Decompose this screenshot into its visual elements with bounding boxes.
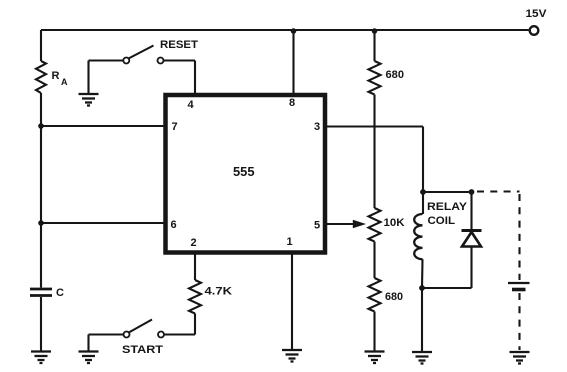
wire pin 6 <box>41 222 164 224</box>
svg-text:555: 555 <box>233 164 255 179</box>
wire 10K to 680 (lower) <box>373 242 375 279</box>
node junction relay top left <box>420 189 426 195</box>
svg-text:8: 8 <box>289 97 295 109</box>
wire C to ground <box>40 297 42 351</box>
wire relay top <box>423 191 472 193</box>
svg-text:4: 4 <box>187 99 194 111</box>
wire top supply rail <box>41 29 529 31</box>
wire pin 2 <box>194 253 196 280</box>
svg-text:COIL: COIL <box>428 215 456 227</box>
ground C <box>31 352 51 364</box>
wire pin 7 <box>41 125 164 127</box>
potentiometer 10K <box>369 208 405 242</box>
node junction pin6 / left rail <box>38 220 44 226</box>
svg-text:R: R <box>52 70 60 82</box>
node junction relay top right <box>469 189 475 195</box>
relay coil L1 <box>414 192 468 288</box>
svg-text:7: 7 <box>171 121 177 133</box>
wire pin 3 <box>327 127 423 193</box>
node junction pin7 / left rail <box>38 123 44 129</box>
resistor 680 (upper) <box>369 30 405 95</box>
terminal 15V <box>526 8 548 35</box>
resistor 4.7K <box>189 280 232 314</box>
switch RESET <box>89 39 199 93</box>
wire pin 8 <box>292 30 294 94</box>
ground resistor chain <box>365 352 385 364</box>
svg-text:10K: 10K <box>384 217 405 229</box>
svg-text:1: 1 <box>286 236 292 248</box>
node junction relay bottom <box>419 285 425 291</box>
wire 680 to ground <box>373 312 375 352</box>
op-amp/IC 555 <box>166 95 326 253</box>
wire pin 5 with wiper arrow <box>327 220 366 229</box>
svg-text:3: 3 <box>314 121 320 133</box>
svg-text:680: 680 <box>386 69 405 81</box>
svg-text:RESET: RESET <box>160 39 198 51</box>
wire pin 1 <box>291 253 293 350</box>
wire left rail <box>40 30 42 288</box>
svg-text:5: 5 <box>314 220 320 232</box>
ground RESET <box>79 61 99 106</box>
ground START <box>79 352 99 364</box>
battery B1 <box>508 283 530 290</box>
svg-text:RELAY: RELAY <box>427 201 468 213</box>
switch START <box>89 320 165 357</box>
wire start to ground <box>87 335 89 352</box>
ground pin 1 <box>282 350 302 362</box>
wire 680 to 10K pot <box>373 95 375 209</box>
node junction pin8 / top rail <box>291 28 297 34</box>
svg-text:2: 2 <box>190 237 196 249</box>
node junction 680 / top rail <box>372 28 378 34</box>
svg-text:C: C <box>56 287 64 299</box>
svg-text:START: START <box>122 344 163 356</box>
resistor 680 (lower) <box>369 278 404 312</box>
svg-text:680: 680 <box>385 291 403 303</box>
capacitor C <box>30 287 64 299</box>
wire relay bottom <box>422 287 472 289</box>
svg-text:4.7K: 4.7K <box>205 286 233 298</box>
svg-text:15V: 15V <box>526 8 548 20</box>
wire dashed relay to battery <box>477 192 520 281</box>
diode D1 <box>462 192 482 288</box>
resistor RA <box>36 61 68 93</box>
svg-text:A: A <box>61 77 68 87</box>
ground battery <box>510 352 530 364</box>
wire dashed battery to ground <box>518 293 520 350</box>
svg-text:6: 6 <box>170 219 176 231</box>
wire relay to ground <box>421 288 423 352</box>
ground relay <box>412 352 432 364</box>
wire 4.7K to switch <box>165 314 196 335</box>
